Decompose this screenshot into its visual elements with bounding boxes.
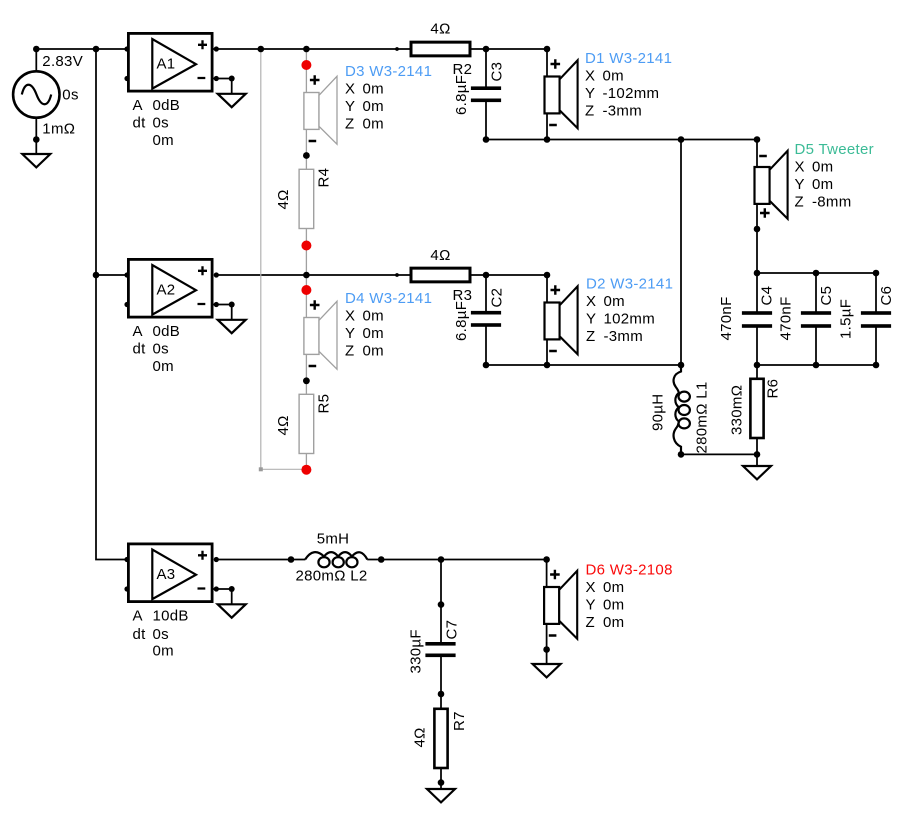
wire woofer bottom rail	[486, 364, 681, 366]
op-amp A2	[124, 259, 218, 317]
svg-text:R7: R7	[451, 711, 468, 731]
svg-text:0m: 0m	[153, 358, 174, 375]
svg-text:R4: R4	[316, 168, 333, 188]
wire C4 branch	[756, 273, 758, 365]
svg-text:2.83V: 2.83V	[42, 53, 83, 70]
wire C6 branch	[875, 273, 877, 365]
svg-text:C6: C6	[878, 286, 895, 306]
wire A2 inverting output to ground	[214, 305, 232, 320]
resistor R4 (gray)	[299, 169, 314, 228]
svg-text:Y0m: Y0m	[345, 98, 384, 115]
wire A3 output rail	[216, 559, 546, 561]
svg-text:4Ω: 4Ω	[275, 189, 292, 209]
capacitor C5	[801, 311, 831, 315]
inductor L2	[305, 552, 367, 567]
wire A2 input	[96, 274, 127, 276]
wire main top rail	[36, 48, 547, 50]
capacitor C4	[742, 311, 772, 315]
speaker D4 (gray)	[304, 300, 337, 369]
inductor L1	[674, 365, 690, 454]
svg-text:C7: C7	[444, 620, 461, 640]
svg-text:Z-3mm: Z-3mm	[585, 103, 642, 120]
svg-text:C5: C5	[818, 286, 835, 306]
svg-text:A0dB: A0dB	[133, 323, 181, 340]
svg-text:4Ω: 4Ω	[430, 21, 450, 38]
svg-text:dt0s: dt0s	[133, 341, 169, 358]
capacitor C6	[861, 311, 891, 315]
wire D2 branch	[546, 275, 548, 365]
wire source branch	[35, 49, 37, 154]
svg-text:D4 W3-2141: D4 W3-2141	[345, 290, 432, 307]
wire D6 branch	[546, 560, 548, 665]
wire D1 branch	[546, 49, 548, 140]
wire tweeter cap rail	[757, 272, 876, 274]
svg-text:A1: A1	[157, 56, 176, 73]
svg-text:dt0s: dt0s	[133, 115, 169, 132]
svg-text:280mΩ L1: 280mΩ L1	[694, 382, 711, 454]
svg-text:D1 W3-2141: D1 W3-2141	[585, 50, 672, 67]
svg-text:X0m: X0m	[345, 81, 384, 98]
svg-text:D3 W3-2141: D3 W3-2141	[345, 63, 432, 80]
ground A2	[218, 320, 246, 333]
wire L1 bottom to R6 bottom	[681, 451, 757, 455]
ground source	[22, 154, 50, 167]
svg-text:0m: 0m	[153, 132, 174, 149]
svg-text:A0dB: A0dB	[133, 97, 181, 114]
ground A1	[218, 94, 246, 107]
svg-text:6.8µF: 6.8µF	[453, 75, 470, 115]
label D6	[586, 562, 673, 632]
wire gray driver chain	[305, 49, 307, 469]
wire gray shorting link	[261, 49, 307, 469]
svg-text:330µF: 330µF	[408, 629, 425, 673]
svg-text:X0m: X0m	[585, 68, 624, 85]
svg-text:R5: R5	[316, 394, 333, 414]
svg-text:X0m: X0m	[586, 579, 625, 596]
pin dots	[303, 47, 399, 384]
red free-node dots	[301, 60, 311, 475]
label D1	[585, 50, 672, 120]
svg-text:330mΩ: 330mΩ	[729, 385, 746, 435]
label A3 settings	[133, 608, 189, 660]
svg-text:R6: R6	[765, 379, 782, 399]
label D3	[345, 63, 432, 133]
svg-text:Y0m: Y0m	[586, 597, 625, 614]
speaker D3 (gray)	[304, 75, 337, 144]
resistor R2	[411, 42, 470, 56]
svg-text:4Ω: 4Ω	[275, 415, 292, 435]
wire amplifier feed column	[96, 49, 127, 560]
wire L1 column	[680, 140, 682, 372]
ground D6	[533, 664, 561, 677]
svg-text:D2 W3-2141: D2 W3-2141	[586, 276, 673, 293]
svg-text:Z0m: Z0m	[345, 116, 384, 133]
svg-text:Z0m: Z0m	[345, 343, 384, 360]
svg-text:90µH: 90µH	[650, 394, 667, 431]
svg-text:A2: A2	[157, 282, 176, 299]
speaker D6	[544, 570, 577, 639]
svg-text:4Ω: 4Ω	[430, 247, 450, 264]
svg-text:0s: 0s	[62, 87, 78, 104]
svg-text:6.8µF: 6.8µF	[453, 301, 470, 341]
svg-text:A10dB: A10dB	[133, 608, 189, 625]
svg-text:Y102mm: Y102mm	[586, 311, 655, 328]
wire A2 output rail	[216, 274, 547, 276]
wire A1 inverting output to ground	[214, 79, 232, 94]
wire cap bottom rail right	[757, 364, 876, 366]
ground R7	[427, 789, 455, 802]
svg-text:C3: C3	[489, 62, 506, 82]
voltage source V1	[13, 71, 59, 117]
svg-text:280mΩ L2: 280mΩ L2	[296, 568, 368, 585]
wire R6 branch	[756, 365, 758, 466]
resistor R5 (gray)	[299, 394, 314, 453]
svg-text:Z-8mm: Z-8mm	[795, 194, 852, 211]
svg-text:4Ω: 4Ω	[412, 727, 429, 747]
label D2	[586, 276, 673, 346]
svg-text:470nF: 470nF	[718, 296, 735, 340]
label D4	[345, 290, 432, 360]
node junction dots	[33, 46, 819, 786]
resistor R6	[750, 379, 763, 438]
svg-text:X0m: X0m	[586, 293, 625, 310]
svg-text:Y0m: Y0m	[345, 325, 384, 342]
svg-text:Z0m: Z0m	[586, 614, 625, 631]
speaker D2	[545, 285, 578, 354]
svg-text:A3: A3	[157, 566, 176, 583]
svg-text:C4: C4	[759, 286, 776, 306]
capacitor C7	[425, 642, 455, 646]
svg-text:X0m: X0m	[345, 308, 384, 325]
svg-text:X0m: X0m	[795, 159, 834, 176]
speaker D5 tweeter	[755, 151, 788, 219]
ground A3	[218, 604, 246, 617]
wire mid rail below D1	[486, 139, 757, 141]
svg-text:0m: 0m	[153, 643, 174, 660]
svg-text:dt0s: dt0s	[133, 626, 169, 643]
wire A3 inverting output to ground	[214, 589, 232, 604]
speaker D1	[545, 59, 578, 128]
svg-text:C2: C2	[489, 288, 506, 308]
op-amp A3	[124, 544, 218, 602]
label D5	[795, 141, 874, 211]
capacitor C2	[471, 311, 501, 315]
wire C5 branch	[815, 273, 817, 365]
svg-text:Z-3mm: Z-3mm	[586, 328, 643, 345]
svg-text:D5 Tweeter: D5 Tweeter	[795, 141, 874, 158]
svg-text:D6 W3-2108: D6 W3-2108	[586, 562, 673, 579]
label source values	[42, 53, 83, 138]
resistor R3	[411, 268, 470, 282]
capacitor C3	[471, 86, 501, 90]
svg-text:1mΩ: 1mΩ	[42, 121, 75, 138]
svg-text:5mH: 5mH	[317, 531, 350, 548]
svg-text:Y-102mm: Y-102mm	[585, 85, 659, 102]
wire R7 branch	[440, 695, 442, 789]
wire D5 branch	[756, 140, 758, 274]
label A2 settings	[133, 323, 181, 375]
wire C7 branch	[440, 560, 442, 696]
op-amp A1	[124, 33, 218, 91]
wire C3 branch	[485, 49, 487, 140]
svg-text:470nF: 470nF	[778, 296, 795, 340]
svg-text:1.5µF: 1.5µF	[838, 299, 855, 339]
svg-text:Y0m: Y0m	[795, 176, 834, 193]
wire C2 branch	[485, 275, 487, 365]
ground R6	[743, 466, 771, 479]
label A1 settings	[133, 97, 181, 149]
resistor R7	[434, 709, 447, 768]
